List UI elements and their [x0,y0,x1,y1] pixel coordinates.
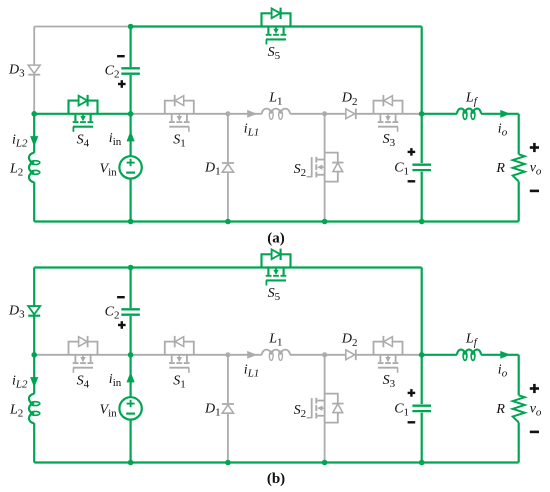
svg-text:(b): (b) [267,471,285,487]
svg-text:R: R [495,161,505,176]
svg-text:R: R [495,402,505,417]
svg-text:(a): (a) [267,231,285,247]
